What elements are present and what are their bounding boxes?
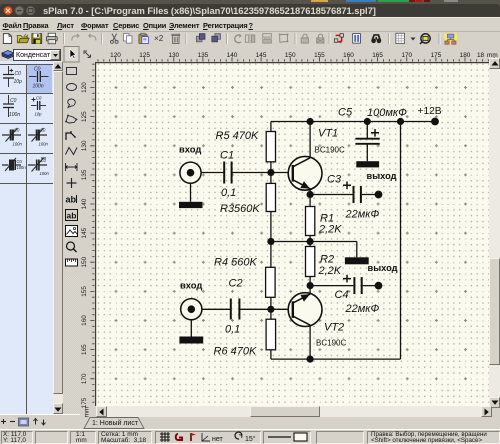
svg-text:R4 560K: R4 560K	[214, 256, 257, 268]
svg-text:140: 140	[227, 52, 238, 59]
svg-text:C0: C0	[36, 96, 42, 101]
svg-text:100n: 100n	[13, 142, 23, 147]
svg-text:100n: 100n	[17, 165, 27, 170]
svg-text:вход: вход	[180, 279, 202, 290]
svg-text:C1: C1	[220, 149, 234, 161]
svg-text:C0: C0	[14, 128, 20, 133]
svg-text:+12В: +12В	[417, 106, 441, 117]
svg-text:125: 125	[139, 52, 150, 59]
svg-text:145: 145	[256, 52, 267, 59]
svg-text:VT2: VT2	[324, 321, 344, 333]
svg-text:120: 120	[110, 52, 121, 59]
svg-text:×2: ×2	[154, 34, 164, 43]
svg-text:155: 155	[81, 285, 88, 296]
svg-text:C3: C3	[327, 173, 342, 185]
svg-text:BC190C: BC190C	[314, 145, 344, 154]
svg-text:0,1: 0,1	[221, 187, 236, 199]
svg-text:R3560K: R3560K	[220, 203, 260, 215]
svg-text:18: 18	[477, 52, 485, 59]
svg-text:22мкФ: 22мкФ	[344, 208, 379, 220]
svg-text:C0: C0	[15, 71, 22, 77]
svg-text:10p: 10p	[14, 79, 23, 85]
svg-text:0,1: 0,1	[225, 323, 240, 335]
svg-text:170: 170	[81, 373, 88, 384]
svg-text:C0: C0	[34, 67, 41, 73]
svg-text:100n: 100n	[40, 171, 50, 176]
svg-text:130: 130	[168, 52, 179, 59]
svg-text:22мкФ: 22мкФ	[344, 303, 379, 315]
svg-text:ab: ab	[67, 211, 77, 221]
svg-text:140: 140	[81, 198, 88, 209]
svg-text:R2: R2	[320, 253, 334, 265]
svg-text:mm: mm	[84, 406, 91, 416]
svg-text:135: 135	[81, 169, 88, 180]
svg-text:C2: C2	[228, 277, 242, 289]
svg-text:10p: 10p	[35, 112, 43, 117]
svg-text:VT1: VT1	[318, 127, 338, 139]
svg-text:вход: вход	[179, 143, 201, 154]
svg-text:ab: ab	[66, 195, 77, 205]
svg-text:155: 155	[314, 52, 325, 59]
svg-text:135: 135	[198, 52, 209, 59]
svg-text:2,2K: 2,2K	[317, 265, 341, 277]
svg-text:165: 165	[81, 343, 88, 354]
svg-text:165: 165	[372, 52, 383, 59]
svg-text:C0: C0	[41, 158, 47, 163]
svg-text:выход: выход	[367, 262, 397, 272]
svg-text:100n: 100n	[9, 112, 20, 118]
svg-text:125: 125	[81, 110, 88, 121]
svg-text:R6 470K: R6 470K	[213, 345, 256, 357]
svg-text:160: 160	[81, 314, 88, 325]
svg-text:170: 170	[401, 52, 412, 59]
svg-text:175: 175	[431, 52, 442, 59]
svg-text:C0: C0	[10, 98, 17, 104]
svg-text:100мкФ: 100мкФ	[367, 107, 407, 119]
svg-text:R5 470K: R5 470K	[215, 130, 258, 142]
svg-text:нет: нет	[212, 436, 224, 443]
svg-text:175: 175	[81, 397, 88, 408]
svg-text:130: 130	[81, 140, 88, 151]
svg-text:150: 150	[81, 256, 88, 267]
svg-text:BC190C: BC190C	[316, 338, 346, 347]
svg-text:15°: 15°	[245, 435, 256, 443]
svg-text:120: 120	[81, 81, 88, 92]
svg-text:160: 160	[343, 52, 354, 59]
svg-text:выход: выход	[366, 170, 396, 180]
svg-text:150: 150	[285, 52, 296, 59]
svg-text:180: 180	[460, 52, 471, 59]
svg-text:C4: C4	[334, 289, 348, 301]
svg-text:2,2K: 2,2K	[318, 223, 342, 235]
svg-text:100n: 100n	[39, 142, 49, 147]
svg-text:C0: C0	[40, 128, 46, 133]
svg-text:145: 145	[81, 227, 88, 238]
svg-text:C5: C5	[338, 106, 353, 118]
svg-text:100n: 100n	[33, 84, 44, 90]
svg-text:C0: C0	[17, 159, 23, 164]
